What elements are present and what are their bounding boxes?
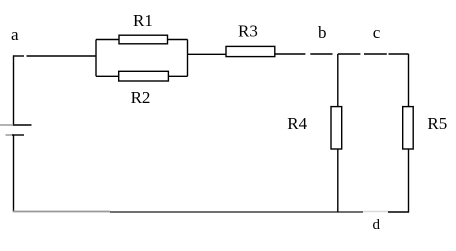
svg-text:R5: R5 <box>427 114 447 133</box>
svg-text:a: a <box>11 25 19 44</box>
svg-text:R2: R2 <box>131 88 151 107</box>
svg-text:R1: R1 <box>133 11 153 30</box>
svg-text:c: c <box>373 23 381 42</box>
svg-text:R3: R3 <box>238 21 258 40</box>
svg-text:R4: R4 <box>287 114 307 133</box>
svg-text:d: d <box>373 217 381 233</box>
svg-text:b: b <box>318 23 327 42</box>
